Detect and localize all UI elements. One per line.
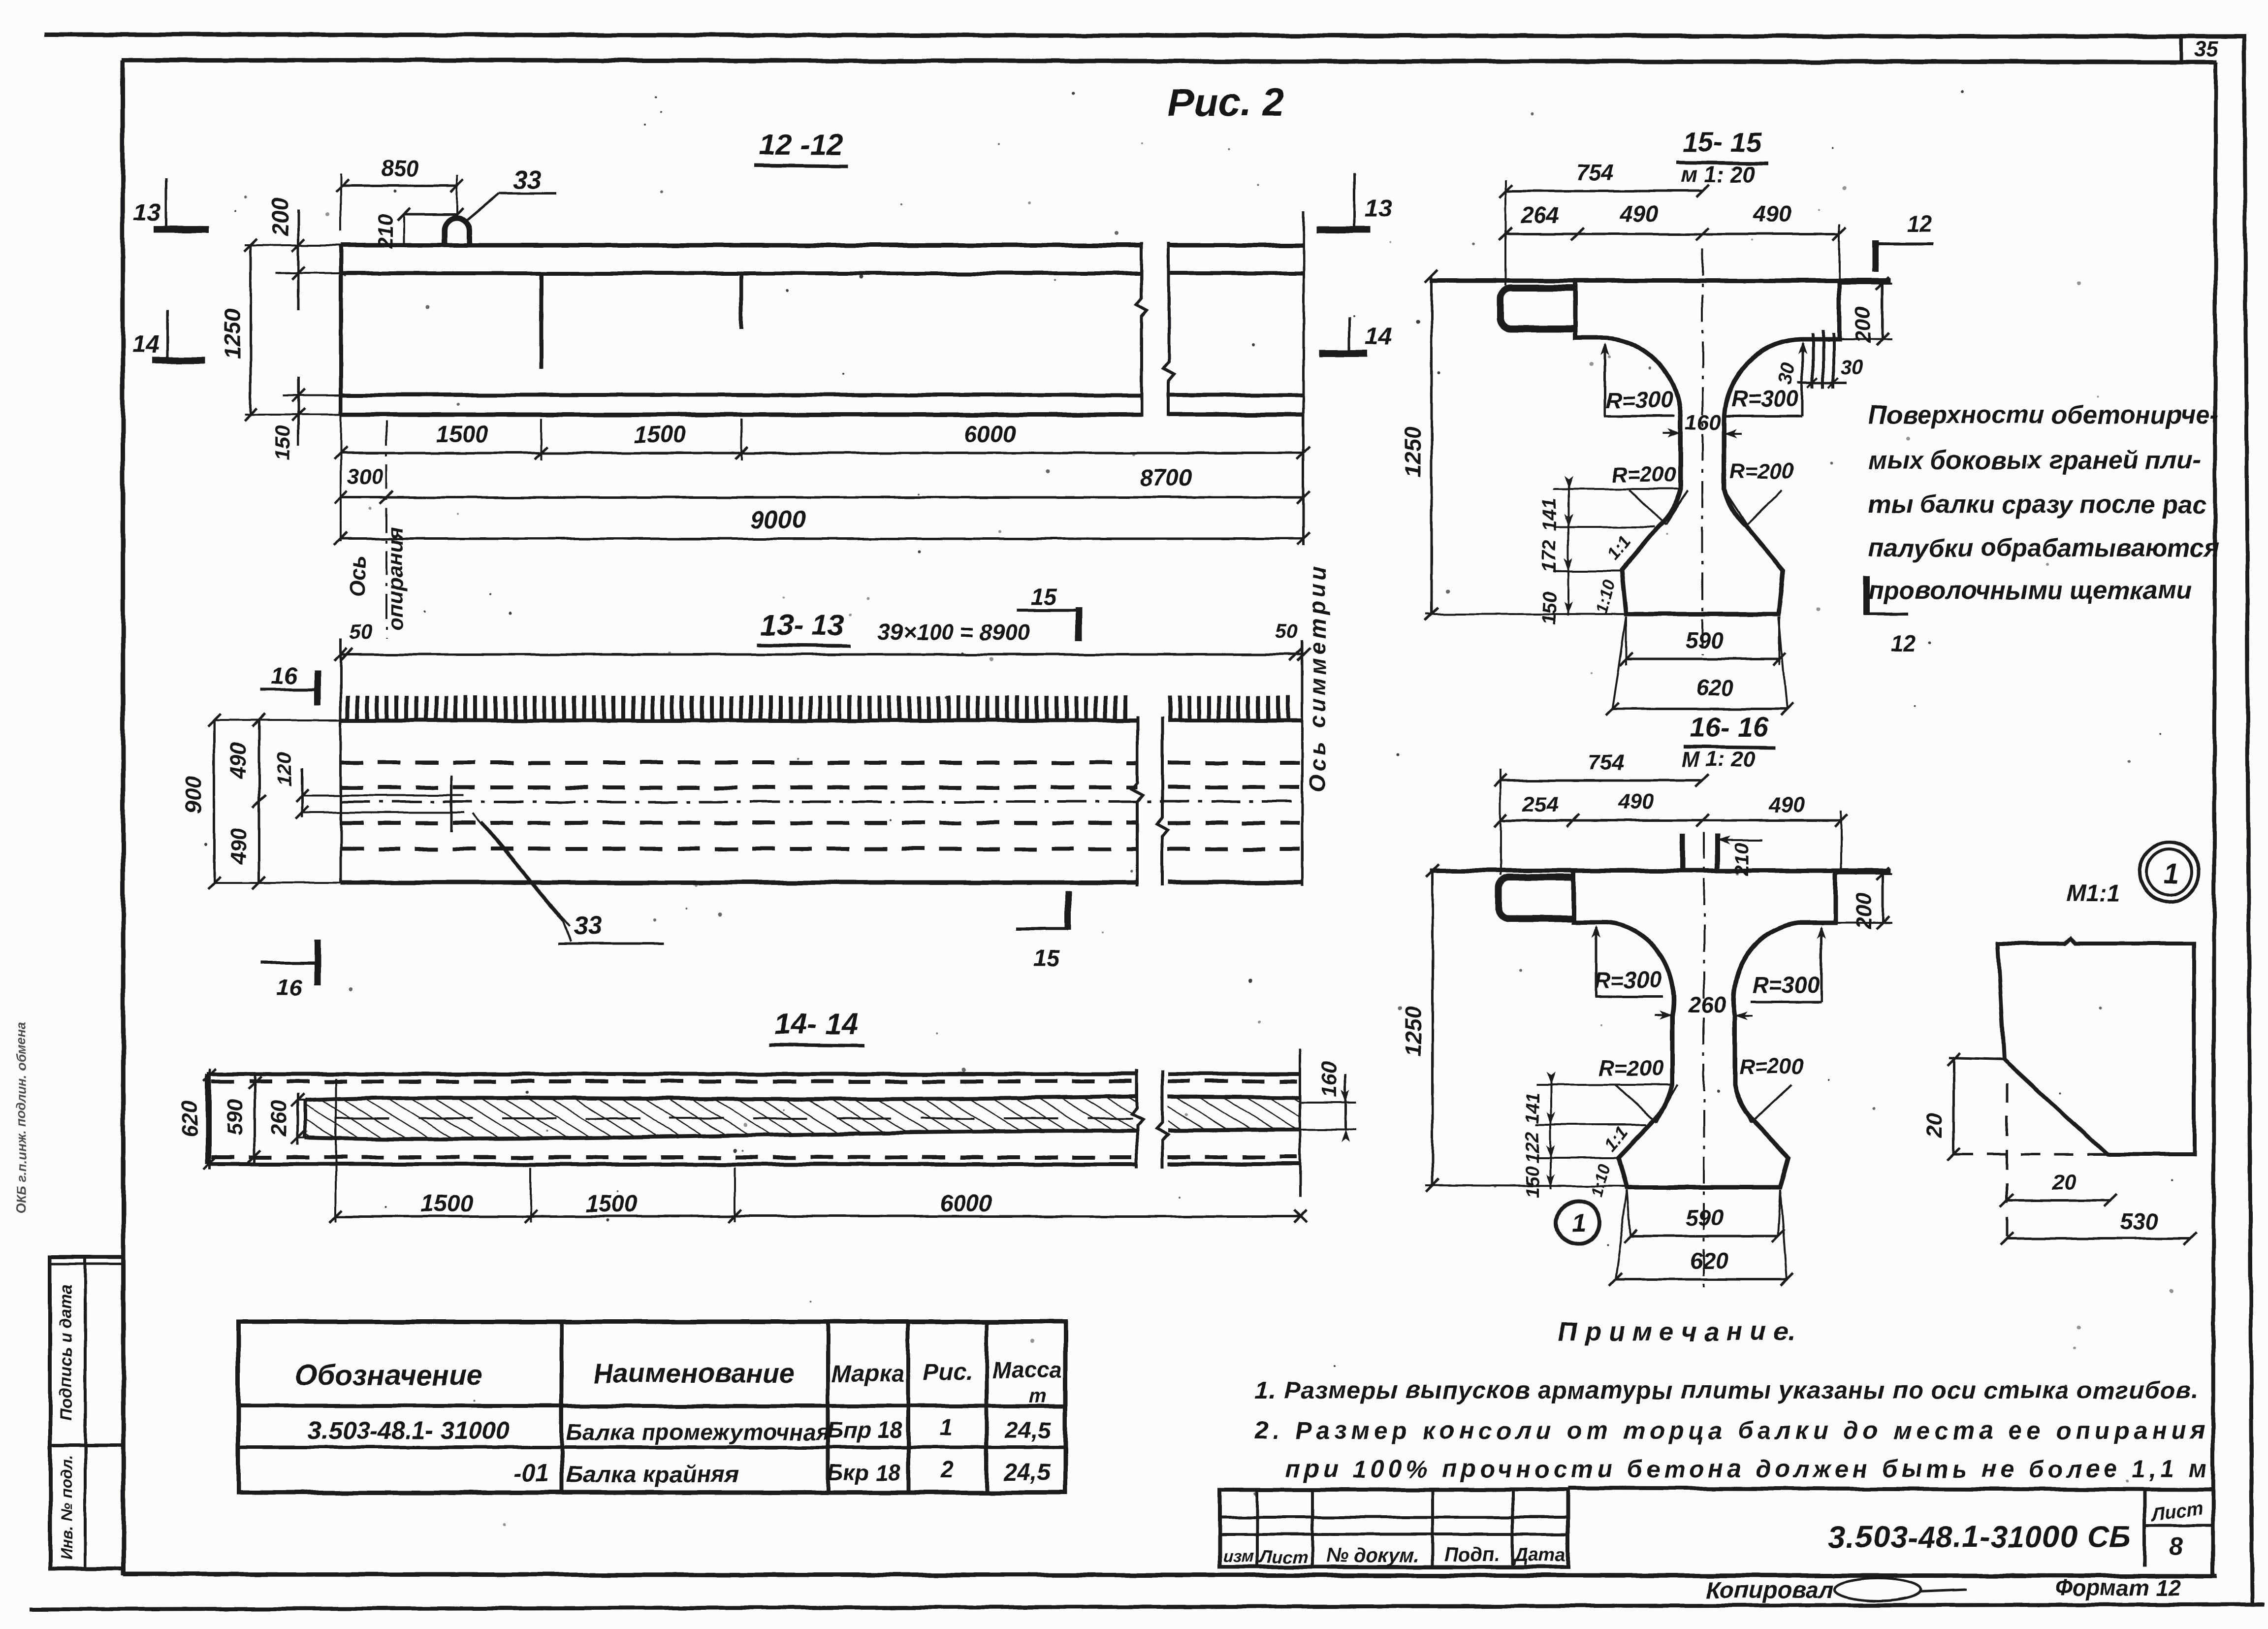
svg-text:12: 12: [1906, 211, 1932, 236]
svg-text:1250: 1250: [220, 308, 245, 359]
dimension 160 right of 14-14: [1300, 1061, 1356, 1142]
scan speckle: [204, 91, 2173, 1564]
svg-text:33: 33: [574, 912, 602, 941]
title block labels: [1223, 1544, 1565, 1567]
centre axis of 15-15: [1701, 249, 1703, 655]
svg-text:Бпр 18: Бпр 18: [828, 1417, 903, 1443]
dimension 1250 left: [220, 239, 257, 421]
beam 13-13 break lines: [1132, 717, 1168, 886]
svg-text:М1:1: М1:1: [2066, 880, 2120, 907]
svg-text:590: 590: [1686, 1205, 1724, 1230]
note text block: [1868, 401, 2219, 605]
stirrup bar cut marks in 12-12: [541, 274, 741, 369]
svg-text:1250: 1250: [1400, 1006, 1426, 1057]
svg-text:Поверхности обетонирче-: Поверхности обетонирче-: [1868, 401, 2218, 429]
dimension 620 (16-16): [1609, 1190, 1793, 1286]
dimension 490 upper: [226, 714, 265, 889]
svg-text:200: 200: [1852, 893, 1876, 930]
dimension 200 left: [267, 197, 305, 310]
svg-text:Наименование: Наименование: [593, 1358, 795, 1389]
svg-text:260: 260: [1688, 992, 1726, 1017]
small dims 141/122/150 (16-16): [1523, 1072, 1672, 1198]
svg-text:R=200: R=200: [1612, 462, 1677, 487]
dimension 590 left of 14-14: [223, 1076, 261, 1163]
svg-text:Обозначение: Обозначение: [295, 1359, 482, 1391]
dimension 530 (detail): [2001, 1208, 2196, 1245]
section mark 13 left: [133, 178, 208, 229]
svg-text:200: 200: [1851, 307, 1875, 344]
svg-text:Балка крайняя: Балка крайняя: [566, 1462, 739, 1488]
svg-text:16: 16: [276, 975, 303, 1001]
detail title М1:1: [2066, 880, 2120, 907]
svg-text:13: 13: [1365, 195, 1392, 222]
groove at slab edge 15-15: [1501, 288, 1575, 329]
dimension row 300/8700: [334, 464, 1310, 504]
section mark 15 bottom: [1017, 891, 1068, 972]
dimension 260 left of 14-14: [267, 1093, 315, 1145]
slope label 1:10 (16-16): [1587, 1162, 1614, 1199]
beam 13-13 plan outline: [341, 638, 1302, 882]
svg-text:3.503-48.1- 31000: 3.503-48.1- 31000: [308, 1417, 510, 1444]
svg-text:300: 300: [347, 464, 383, 489]
svg-text:150: 150: [271, 426, 294, 460]
svg-text:620: 620: [178, 1101, 202, 1137]
beam 12-12 break lines: [1136, 242, 1174, 417]
svg-text:Лист: Лист: [1258, 1547, 1309, 1567]
svg-text:Дата: Дата: [1513, 1545, 1565, 1565]
svg-text:1500: 1500: [436, 422, 489, 448]
leader to label 33 (plan): [473, 814, 664, 944]
svg-text:20: 20: [2052, 1171, 2076, 1195]
section mark 15 top: [1017, 584, 1082, 641]
svg-text:П р и м е ч а н и е.: П р и м е ч а н и е.: [1558, 1317, 1795, 1346]
web width 160 (15-15): [1663, 410, 1742, 438]
sheet outer top edge: [44, 34, 2246, 36]
dimension 264/490/490 (15-15): [1499, 201, 1846, 281]
svg-text:при 100% прочности бетона: при 100% прочности бетона должен быть не…: [1285, 1455, 2222, 1483]
svg-text:141: 141: [1538, 498, 1560, 531]
svg-text:Ось симметрии: Ось симметрии: [1305, 563, 1330, 792]
detail marker circled 1 (double circle): [2139, 842, 2199, 902]
svg-text:ОКБ г.п.инж. подлин. обмена: ОКБ г.п.инж. подлин. обмена: [14, 1021, 29, 1214]
svg-text:Формат 12: Формат 12: [2055, 1575, 2181, 1600]
svg-text:200: 200: [267, 197, 293, 236]
title Рис. 2: [1168, 80, 1284, 124]
section title 16-16: [1681, 712, 1776, 771]
svg-text:Балка промежуточная: Балка промежуточная: [566, 1419, 830, 1445]
groove at slab edge 16-16: [1499, 878, 1573, 918]
title block top border: [1568, 1488, 2213, 1490]
svg-text:490: 490: [1617, 790, 1654, 814]
notes heading Примечание: [1558, 1317, 1795, 1346]
svg-text:R=300: R=300: [1595, 967, 1662, 993]
dimension 754 (16-16): [1494, 750, 1709, 876]
dimension 200 right (16-16): [1836, 867, 1892, 930]
symmetry axis right end of 14-14: [1299, 1049, 1302, 1197]
svg-text:14: 14: [1365, 323, 1392, 350]
svg-text:490: 490: [1753, 201, 1791, 227]
dimension 590 (15-15): [1620, 617, 1786, 665]
svg-text:1500: 1500: [421, 1191, 474, 1217]
svg-text:150: 150: [1523, 1166, 1543, 1197]
svg-text:620: 620: [1696, 675, 1734, 701]
svg-text:т: т: [1029, 1385, 1047, 1407]
left margin rotated captions: [57, 1284, 76, 1560]
symmetry axis right end of 13-13: [1301, 640, 1304, 886]
svg-text:210: 210: [1731, 843, 1753, 877]
centre dash-dot axis of 13-13: [341, 801, 1302, 803]
section mark 12 bottom: [1863, 577, 1916, 656]
label R=300 right (16-16): [1751, 926, 1826, 1002]
section mark 14 left: [132, 310, 205, 360]
svg-text:8: 8: [2170, 1532, 2184, 1561]
dimension 754 (15-15): [1499, 160, 1709, 286]
copied-by signature line: [1706, 1575, 2181, 1603]
svg-text:490: 490: [1768, 793, 1805, 817]
svg-text:172: 172: [1538, 540, 1560, 573]
centre axis of 16-16: [1703, 832, 1705, 1290]
svg-text:24,5: 24,5: [1004, 1417, 1052, 1443]
dimension 850: [336, 156, 464, 231]
svg-text:8700: 8700: [1140, 465, 1192, 491]
dimension 590 (16-16): [1624, 1190, 1785, 1242]
svg-text:1: 1: [940, 1414, 953, 1440]
extension lines left of beam: [245, 245, 341, 415]
svg-text:13- 13: 13- 13: [761, 609, 844, 642]
hatched core band of 14-14: [305, 1093, 1300, 1143]
dimension row 1500/1500/6000: [334, 415, 1310, 542]
lifting hook loop 33: [445, 218, 470, 246]
svg-text:М 1: 20: М 1: 20: [1681, 747, 1755, 771]
svg-text:12: 12: [1890, 630, 1916, 656]
svg-text:Копировал: Копировал: [1706, 1577, 1834, 1603]
svg-text:490: 490: [1620, 201, 1659, 227]
dimension 200 right (15-15): [1839, 277, 1892, 346]
hidden dashed edges in 13-13: [341, 763, 1300, 849]
section title 15-15: [1676, 127, 1768, 187]
view title 14-14: [769, 1008, 865, 1046]
svg-text:260: 260: [267, 1100, 291, 1137]
label R=300 left (15-15): [1600, 343, 1675, 416]
svg-text:R=300: R=300: [1731, 386, 1799, 412]
sheet number cell: [2144, 1488, 2213, 1567]
title block mini table: [1220, 1490, 1568, 1567]
label ось симметрии: [1305, 563, 1330, 792]
slope label 1:1 (16-16): [1600, 1122, 1632, 1155]
svg-text:264: 264: [1521, 202, 1559, 228]
view title 12-12: [754, 129, 848, 166]
svg-text:1: 1: [2163, 858, 2179, 890]
rebar outlets with 210 (16-16): [1683, 834, 1762, 876]
beam 12-12 outline: [341, 245, 1303, 415]
section 16-16 outline: [1430, 871, 1890, 1187]
table row 1: [308, 1414, 1052, 1445]
svg-text:620: 620: [1691, 1248, 1728, 1273]
beam 14-14 break lines: [1132, 1070, 1168, 1168]
label R=200 right (15-15): [1724, 459, 1794, 525]
detail dashed construction lines: [1953, 1083, 2107, 1245]
svg-text:490: 490: [226, 743, 251, 780]
note line 3: [1285, 1455, 2222, 1483]
section 15-15 outline: [1430, 281, 1890, 614]
dimension 900 left of 13-13: [180, 714, 341, 889]
svg-text:9000: 9000: [751, 506, 805, 533]
svg-text:120: 120: [273, 752, 296, 786]
svg-text:Инв. № подл.: Инв. № подл.: [58, 1456, 75, 1561]
svg-text:Рис.: Рис.: [923, 1359, 972, 1385]
svg-text:850: 850: [381, 156, 419, 181]
svg-text:210: 210: [374, 214, 397, 249]
svg-text:1500: 1500: [634, 422, 686, 448]
svg-text:м 1: 20: м 1: 20: [1681, 162, 1756, 187]
dimension 620 (15-15): [1606, 617, 1793, 716]
svg-text:15: 15: [1030, 584, 1057, 610]
svg-text:Рис. 2: Рис. 2: [1168, 80, 1284, 124]
svg-text:изм: изм: [1223, 1547, 1254, 1566]
dimension row 1500/1500/6000 of 14-14: [329, 1078, 1307, 1223]
svg-text:14: 14: [132, 330, 160, 358]
bar 33 thin lines: [345, 776, 464, 832]
svg-text:50: 50: [350, 620, 373, 643]
small dims 141/172/150 (15-15): [1538, 476, 1681, 624]
dimension 210 (hook offset): [374, 208, 464, 249]
bearing axis (ось опирания): [346, 421, 408, 638]
svg-text:33: 33: [513, 165, 542, 194]
svg-text:2. Размер консоли от торца: 2. Размер консоли от торца балки до мест…: [1254, 1417, 2210, 1444]
hidden dashed lines in 14-14: [212, 1081, 1297, 1157]
svg-text:1. Размеры выпусков арматуры п: 1. Размеры выпусков арматуры плиты указа…: [1255, 1376, 2199, 1404]
svg-text:900: 900: [180, 776, 206, 814]
svg-text:6000: 6000: [940, 1191, 992, 1217]
dimension 254/490/490 (16-16): [1494, 790, 1848, 871]
svg-text:141: 141: [1523, 1092, 1543, 1123]
svg-text:R=300: R=300: [1753, 972, 1820, 998]
svg-text:1: 1: [1572, 1209, 1586, 1238]
table row 2: [513, 1457, 1051, 1488]
dimension 20 horizontal (detail): [2001, 1171, 2117, 1207]
slope label 1:10 (15-15): [1592, 578, 1619, 616]
svg-text:490: 490: [226, 828, 251, 865]
svg-text:39×100 = 8900: 39×100 = 8900: [878, 619, 1030, 645]
svg-text:14- 14: 14- 14: [774, 1008, 858, 1041]
note line 2: [1254, 1417, 2210, 1444]
document designation: [1829, 1520, 2131, 1554]
svg-text:ты балки сразу после рас: ты балки сразу после рас: [1868, 490, 2206, 519]
svg-text:6000: 6000: [964, 421, 1017, 447]
svg-text:R=200: R=200: [1599, 1056, 1663, 1080]
dimension 120: [273, 752, 345, 819]
svg-text:Марка: Марка: [831, 1361, 904, 1387]
svg-text:Бкр 18: Бкр 18: [828, 1460, 900, 1485]
view title 13-13: [757, 609, 850, 646]
dimension 39x100=8900 with 50 offsets: [334, 619, 1310, 661]
svg-text:254: 254: [1522, 792, 1558, 816]
svg-text:2: 2: [940, 1457, 954, 1483]
leader and label 33: [467, 165, 556, 220]
dimension 150 left: [271, 377, 305, 460]
label R=200 left (16-16): [1599, 1056, 1678, 1123]
svg-text:530: 530: [2120, 1208, 2158, 1234]
left margin stamp boxes: [50, 1257, 124, 1569]
svg-text:20: 20: [1922, 1113, 1947, 1138]
svg-text:15: 15: [1033, 945, 1060, 972]
dimension 20 vertical (detail): [1922, 1053, 1960, 1161]
svg-text:122: 122: [1523, 1132, 1543, 1163]
svg-text:-01: -01: [513, 1459, 549, 1487]
label R=300 left (16-16): [1592, 925, 1663, 997]
svg-text:30: 30: [1774, 361, 1799, 387]
section mark 16 top: [260, 663, 318, 705]
svg-text:проволочными щетками: проволочными щетками: [1868, 576, 2192, 605]
web width 260 (16-16): [1655, 992, 1753, 1020]
30/30 outlet detail on 15-15 flange: [1774, 330, 1864, 388]
svg-text:16: 16: [271, 663, 297, 689]
dimension 1250 (16-16): [1400, 864, 1627, 1192]
svg-text:опирания: опирания: [383, 526, 408, 630]
section mark 16 bottom: [261, 940, 318, 1001]
symmetry axis right end of 12-12: [1303, 212, 1305, 546]
svg-text:Масса: Масса: [992, 1357, 1061, 1383]
svg-text:50: 50: [1275, 619, 1298, 642]
section mark 14 right: [1319, 317, 1392, 356]
rebar outlet comb on 13-13: [348, 696, 1288, 721]
svg-text:мых боковых граней пли-: мых боковых граней пли-: [1868, 446, 2201, 475]
svg-text:№ докум.: № докум.: [1326, 1545, 1419, 1566]
table headers: [295, 1357, 1062, 1407]
svg-text:3.503-48.1-31000 СБ: 3.503-48.1-31000 СБ: [1829, 1520, 2131, 1554]
dimension 1250 (15-15): [1400, 270, 1626, 620]
centroid dash line in band: [335, 1117, 1132, 1119]
svg-text:1250: 1250: [1400, 426, 1426, 477]
svg-text:R=200: R=200: [1729, 459, 1794, 484]
svg-text:Подп.: Подп.: [1444, 1544, 1500, 1565]
svg-text:12 -12: 12 -12: [759, 129, 843, 162]
svg-text:160: 160: [1317, 1061, 1341, 1098]
svg-text:35: 35: [2194, 37, 2218, 61]
svg-text:палубки обрабатываются: палубки обрабатываются: [1868, 534, 2219, 562]
svg-text:13: 13: [133, 198, 160, 226]
svg-text:754: 754: [1588, 750, 1624, 775]
section mark 12 top: [1873, 211, 1933, 272]
node detail marker circled 1: [1556, 1201, 1599, 1244]
svg-text:1500: 1500: [585, 1191, 638, 1217]
parts table grid: [238, 1322, 1065, 1493]
svg-text:150: 150: [1538, 592, 1560, 625]
note line 1: [1255, 1376, 2199, 1404]
svg-text:30: 30: [1841, 356, 1864, 379]
faint margin scribble: [14, 1021, 29, 1214]
label R=200 right (16-16): [1735, 1054, 1804, 1123]
svg-text:24,5: 24,5: [1003, 1460, 1051, 1486]
svg-text:590: 590: [1686, 627, 1724, 653]
svg-text:16- 16: 16- 16: [1690, 712, 1769, 743]
svg-text:R=300: R=300: [1606, 387, 1673, 413]
page number box 35: [2181, 36, 2218, 62]
chamfer detail outline: [1949, 939, 2194, 1154]
label R=200 left (15-15): [1612, 462, 1688, 525]
dimension row 9000: [334, 506, 1310, 545]
svg-text:590: 590: [223, 1099, 247, 1135]
section mark 13 right: [1316, 173, 1392, 231]
svg-text:15- 15: 15- 15: [1683, 127, 1762, 158]
slope label 1:1 (15-15): [1603, 531, 1635, 564]
svg-text:R=200: R=200: [1739, 1054, 1804, 1078]
svg-text:Подпись и дата: Подпись и дата: [57, 1284, 76, 1420]
svg-text:754: 754: [1576, 160, 1614, 185]
beam 14-14 outline: [207, 1074, 1300, 1164]
svg-text:Ось: Ось: [346, 555, 370, 597]
svg-text:160: 160: [1685, 410, 1721, 434]
dimension 620 left of 14-14: [178, 1069, 217, 1170]
label R=300 right (15-15): [1726, 341, 1807, 416]
